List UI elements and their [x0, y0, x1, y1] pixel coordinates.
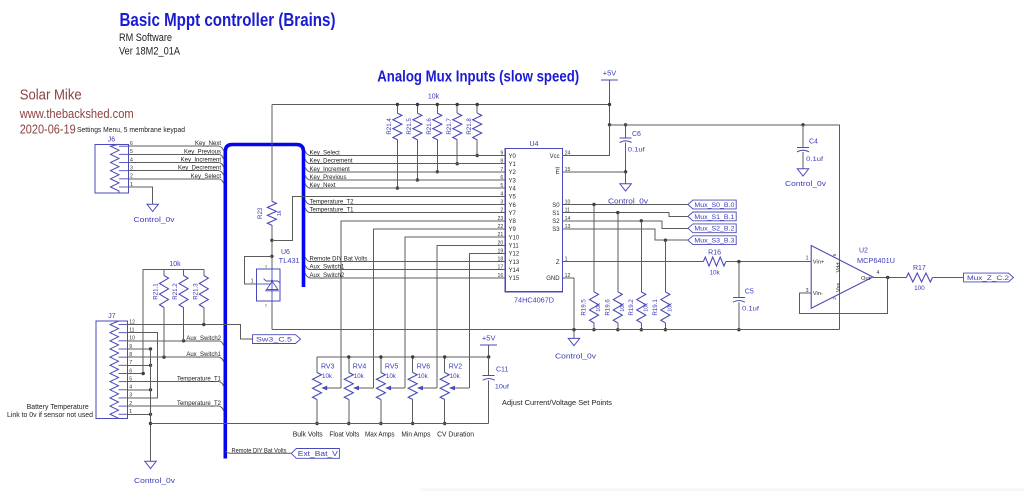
- wire R19.5 leads: [593, 205, 595, 292]
- wire C5 top lead: [738, 262, 740, 298]
- wire mux select S2 to flag: [563, 221, 688, 229]
- svg-text:S1: S1: [552, 211, 560, 217]
- svg-text:Y8: Y8: [509, 219, 517, 225]
- svg-text:R21.8: R21.8: [466, 118, 473, 135]
- node net flag Sw3_C.5: [253, 335, 301, 344]
- regulator U6 TL431: [256, 269, 280, 301]
- wire R19.1 leads: [664, 240, 666, 292]
- wire R21.4 leads: [396, 105, 398, 114]
- wire pot top rail: [317, 356, 489, 358]
- resistor R19.2 10k: [637, 292, 646, 323]
- svg-text:3: 3: [265, 264, 267, 268]
- svg-text:Mux_Z_C.2: Mux_Z_C.2: [967, 275, 1010, 282]
- connector J6 (keypad): [95, 144, 128, 193]
- svg-text:RV5: RV5: [385, 363, 399, 370]
- svg-text:R23: R23: [257, 207, 264, 219]
- svg-text:Ext_Bat_V: Ext_Bat_V: [298, 449, 338, 458]
- svg-text:16: 16: [498, 273, 504, 279]
- svg-text:Analog Mux Inputs (slow speed): Analog Mux Inputs (slow speed): [377, 69, 579, 86]
- svg-text:Control_0v: Control_0v: [134, 478, 176, 485]
- junction R21.5 on +5V rail: [416, 103, 419, 106]
- svg-text:Vdd: Vdd: [836, 263, 842, 273]
- junction R19.5 tap: [592, 203, 595, 206]
- svg-text:E: E: [556, 170, 560, 176]
- svg-text:Temperature_T1: Temperature_T1: [177, 377, 222, 383]
- svg-text:Y0: Y0: [509, 154, 517, 160]
- wire R23 bottom to TL431 cathode: [271, 225, 273, 269]
- svg-text:S3: S3: [552, 227, 560, 233]
- wire +5V rail left end down to R23: [271, 105, 273, 202]
- svg-text:Y6: Y6: [509, 203, 517, 209]
- junction R21.1 bottom on Aux_Switch1: [162, 355, 165, 358]
- wire Key_Decrement (bus to mux Y1): [305, 159, 309, 164]
- svg-text:Y10: Y10: [509, 235, 520, 241]
- node net flag Mux_S0_B.0: [688, 200, 736, 209]
- svg-text:10k: 10k: [386, 373, 397, 380]
- wire RV wiper net to mux Y10: [405, 237, 505, 388]
- svg-text:10uf: 10uf: [495, 384, 509, 391]
- svg-text:7: 7: [500, 167, 503, 173]
- wire Key_Select (bus to mux Y0): [305, 151, 309, 156]
- svg-text:10k: 10k: [644, 303, 650, 312]
- svg-text:Y11: Y11: [509, 244, 520, 250]
- wire C5 bottom to ground rail: [738, 302, 740, 329]
- wire R21.3 leads: [203, 270, 205, 276]
- wire Aux_Switch1 (bus to mux Y14): [305, 265, 309, 270]
- svg-text:Y15: Y15: [509, 276, 520, 282]
- junction R19.5 on ground rail: [592, 328, 595, 331]
- junction pin1 ground: [149, 413, 152, 416]
- power +5V (pots): [480, 344, 497, 346]
- wire Aux_Switch2: J7 pin 10 to bus: [128, 340, 220, 342]
- potentiometer RV6 10k: [408, 373, 417, 400]
- wire RV3 top/bottom leads: [316, 357, 318, 373]
- svg-text:R19.2: R19.2: [628, 299, 635, 316]
- junction R19.1 on ground rail: [664, 328, 667, 331]
- node faint bottom band: [420, 488, 1024, 491]
- svg-text:C6: C6: [632, 131, 641, 138]
- junction R19.2 on ground rail: [640, 328, 643, 331]
- svg-text:1: 1: [806, 256, 809, 262]
- wire Temperature_T2 (bus to mux Y6): [305, 200, 309, 205]
- junction +5V / pull-up rail: [608, 103, 611, 106]
- svg-text:10k: 10k: [354, 373, 365, 380]
- svg-text:Y13: Y13: [509, 260, 520, 266]
- svg-text:RV4: RV4: [353, 363, 367, 370]
- junction RV2 on bottom rail: [443, 422, 446, 425]
- junction RV6 on pot rail: [411, 355, 414, 358]
- wire +5V top rail: [272, 104, 610, 106]
- capacitor C4 0.1uf: [797, 146, 809, 148]
- svg-text:Temperature_T1: Temperature_T1: [310, 208, 355, 214]
- ground Control_0v (J7): [145, 461, 156, 468]
- svg-text:Key_Select: Key_Select: [191, 174, 222, 180]
- wire J7 pin 6 to 10k pull-up rail: [128, 270, 204, 374]
- svg-text:10k: 10k: [450, 373, 461, 380]
- junction R21.7 on +5V rail: [456, 103, 459, 106]
- svg-text:Vin-: Vin-: [813, 291, 823, 297]
- svg-text:10k: 10k: [428, 93, 440, 100]
- mux U4 74HC4067D: [505, 149, 562, 292]
- wire RV6 top/bottom leads: [412, 357, 414, 373]
- svg-text:0.1uf: 0.1uf: [742, 306, 759, 313]
- wire mux Z output to R16: [563, 261, 704, 263]
- svg-text:Key_Increment: Key_Increment: [310, 167, 351, 173]
- svg-text:Vin+: Vin+: [813, 260, 824, 266]
- ground Control_0v (E pin / C6): [620, 184, 631, 191]
- svg-text:J6: J6: [108, 136, 116, 143]
- svg-text:Float Volts: Float Volts: [329, 429, 359, 438]
- wire R21.1 leads: [163, 270, 165, 276]
- svg-text:Bulk Volts: Bulk Volts: [293, 429, 323, 438]
- svg-text:Y1: Y1: [509, 162, 517, 168]
- wire Key_Increment (J6 pin 4 to bus): [128, 162, 219, 164]
- capacitor C5 0.1uf: [733, 297, 745, 299]
- wire bottom rail (pots to J7 ground): [151, 423, 489, 425]
- svg-text:Out: Out: [861, 276, 870, 282]
- junction R21.2 bottom on Aux_Switch2: [182, 339, 185, 342]
- resistor R19.5 10k: [590, 292, 599, 323]
- junction output/feedback: [886, 276, 889, 279]
- junction pin6 supply: [142, 372, 145, 375]
- wire mux select S1 to flag: [563, 213, 688, 217]
- junction TL431 cathode/ref: [270, 255, 273, 258]
- resistor R23 1k: [267, 201, 276, 225]
- junction R21.7 to key row: [456, 162, 459, 165]
- wire Temperature_T1 (bus to mux Y7): [305, 208, 309, 213]
- resistor R21.3 10k: [199, 276, 208, 308]
- wire Key_Select (J6 pin 2 to bus): [128, 178, 219, 180]
- junction RV4 on pot rail: [347, 355, 350, 358]
- svg-text:RV6: RV6: [417, 363, 431, 370]
- wire RV2 wiper arrow: [454, 387, 470, 389]
- ground Control_0v (J6): [147, 204, 158, 211]
- wire R16 to op-amp Vin+: [726, 261, 811, 263]
- svg-text:Control_0v: Control_0v: [134, 217, 176, 224]
- junction Y5 tap: [270, 239, 273, 242]
- svg-text:Aux_Switch1: Aux_Switch1: [310, 265, 345, 271]
- svg-text:R21.3: R21.3: [192, 283, 199, 300]
- svg-text:8: 8: [500, 159, 503, 165]
- svg-text:C4: C4: [809, 139, 818, 146]
- svg-text:Y12: Y12: [509, 252, 520, 258]
- wire RV5 wiper arrow: [390, 387, 405, 389]
- svg-text:Mux_S1_B.1: Mux_S1_B.1: [694, 214, 734, 221]
- svg-text:TL431: TL431: [279, 258, 300, 265]
- svg-text:Key_Next: Key_Next: [195, 141, 221, 147]
- svg-text:74HC4067D: 74HC4067D: [514, 296, 554, 305]
- wire RV4 top/bottom leads: [348, 357, 350, 373]
- junction RV5 on pot rail: [379, 355, 382, 358]
- svg-text:S0: S0: [552, 203, 560, 209]
- svg-text:U6: U6: [281, 249, 290, 256]
- svg-text:Key_Previous: Key_Previous: [310, 175, 347, 181]
- junction R21.4 to key row: [396, 186, 399, 189]
- junction R21.6 on +5V rail: [436, 103, 439, 106]
- svg-text:Key_Select: Key_Select: [310, 151, 341, 157]
- svg-text:R16: R16: [708, 250, 721, 257]
- junction U4 GND on ground rail: [572, 328, 575, 331]
- resistor R21.4 10k: [393, 113, 402, 140]
- svg-text:Key_Decrement: Key_Decrement: [178, 166, 221, 172]
- svg-text:Key_Next: Key_Next: [310, 183, 336, 189]
- junction RV3 on bottom rail: [315, 422, 318, 425]
- svg-text:Z: Z: [556, 260, 560, 266]
- svg-text:10k: 10k: [169, 261, 181, 268]
- junction RV5 on bottom rail: [379, 422, 382, 425]
- svg-text:Sw3_C.5: Sw3_C.5: [256, 337, 293, 344]
- ground Control_0v (C4): [797, 169, 808, 176]
- wire J6 pin 1 to ground: [128, 187, 152, 204]
- svg-text:17: 17: [498, 265, 504, 271]
- resistor R19.6 10k: [613, 292, 622, 323]
- junction RV4 on bottom rail: [347, 422, 350, 425]
- wire +5V branch to C6: [610, 125, 626, 138]
- wire RV wiper net to mux Y9: [373, 229, 505, 388]
- junction pin9 ground: [149, 347, 152, 350]
- wire ground symbol stub: [573, 330, 575, 339]
- wire Remote DIY Bat Volts from bus end to flag: [225, 451, 291, 453]
- svg-text:4: 4: [877, 270, 880, 276]
- resistor R21.5 10k: [413, 113, 422, 140]
- svg-text:23: 23: [498, 216, 504, 222]
- wire mux select S0 to flag: [563, 204, 688, 206]
- wire Key_Previous (bus to mux Y3): [305, 175, 309, 180]
- wire RV wiper net to mux Y12: [469, 253, 505, 388]
- wire R21.5 leads: [416, 105, 418, 114]
- wire C6 bottom to enable/ground: [625, 143, 627, 184]
- svg-text:10k: 10k: [620, 303, 626, 312]
- wire U4 E pin to ground: [563, 171, 626, 173]
- svg-text:100: 100: [914, 285, 925, 292]
- svg-text:RV2: RV2: [449, 363, 463, 370]
- wire RV2 top/bottom leads: [444, 357, 446, 373]
- power +5V (top): [601, 79, 618, 81]
- svg-text:R19.1: R19.1: [652, 299, 659, 316]
- svg-text:S2: S2: [552, 219, 560, 225]
- svg-text:2020-06-19: 2020-06-19: [20, 122, 76, 137]
- wire +5V drop to Vcc: [609, 80, 611, 156]
- svg-text:Control_0v: Control_0v: [785, 181, 827, 188]
- resistor R16 10k: [703, 257, 725, 266]
- svg-text:Y4: Y4: [509, 186, 517, 192]
- svg-text:1k: 1k: [277, 210, 283, 216]
- svg-text:19: 19: [498, 248, 504, 254]
- wire Key_Next (J6 pin 6 to bus): [128, 145, 219, 147]
- wire RV wiper net to mux Y8: [341, 221, 505, 388]
- svg-text:Max Amps: Max Amps: [365, 429, 395, 438]
- wire R17 to Mux_Z flag: [933, 277, 964, 279]
- svg-text:Mux_S0_B.0: Mux_S0_B.0: [694, 202, 734, 209]
- resistor R21.7 10k: [453, 113, 462, 140]
- potentiometer RV4 10k: [344, 373, 353, 400]
- svg-text:Temperature_T2: Temperature_T2: [177, 401, 222, 407]
- svg-text:R21.2: R21.2: [172, 283, 179, 300]
- wire U4 Vcc to +5V: [563, 125, 610, 156]
- svg-text:Y5: Y5: [509, 195, 517, 201]
- svg-text:Key_Decrement: Key_Decrement: [310, 159, 353, 165]
- wire R21.7 leads: [456, 105, 458, 114]
- svg-text:Y2: Y2: [509, 170, 517, 176]
- svg-text:MCP6401U: MCP6401U: [857, 258, 895, 265]
- svg-text:2: 2: [265, 304, 267, 308]
- svg-text:Control_0v: Control_0v: [555, 354, 597, 361]
- svg-text:Solar Mike: Solar Mike: [20, 87, 82, 104]
- capacitor C6 0.1uf: [620, 137, 632, 139]
- svg-text:U2: U2: [859, 248, 868, 255]
- svg-text:10k: 10k: [418, 373, 429, 380]
- svg-text:U4: U4: [530, 141, 539, 148]
- wire RV3 wiper arrow: [326, 387, 341, 389]
- svg-text:Mux_S2_B.2: Mux_S2_B.2: [694, 226, 734, 233]
- resistor R21.1 10k: [160, 276, 169, 308]
- connector J7 (battery temperature / aux): [96, 321, 128, 418]
- svg-text:Ver 18M2_01A: Ver 18M2_01A: [119, 46, 181, 58]
- svg-text:18: 18: [498, 257, 504, 263]
- svg-text:RM Software: RM Software: [119, 32, 172, 44]
- wire R19.6 leads: [617, 213, 619, 292]
- wire op-amp Vss to ground rail: [839, 294, 841, 330]
- potentiometer RV5 10k: [376, 373, 385, 400]
- svg-text:R17: R17: [913, 265, 926, 272]
- svg-text:6: 6: [500, 175, 503, 181]
- svg-text:Link to 0v if sensor not used: Link to 0v if sensor not used: [7, 410, 93, 419]
- resistor R19.1 10k: [661, 292, 670, 323]
- svg-text:Y9: Y9: [509, 227, 517, 233]
- wire Y5 net: TL431 cathode to mux Y5: [272, 196, 505, 240]
- wire TL431 anode to ground rail: [271, 301, 273, 330]
- svg-text:22: 22: [498, 224, 504, 230]
- svg-text:2: 2: [500, 208, 503, 214]
- junction pin7 ground: [149, 364, 152, 367]
- wire J7 pin 11 to pin 3: [128, 333, 158, 398]
- wire J7 pin 9 to ground column: [128, 348, 151, 350]
- wire Aux_Switch1: J7 pin 8 to bus: [128, 356, 220, 358]
- svg-text:Basic Mppt controller (Brains): Basic Mppt controller (Brains): [120, 9, 336, 30]
- svg-text:J7: J7: [108, 313, 116, 320]
- svg-text:Y7: Y7: [509, 211, 517, 217]
- svg-text:R21.6: R21.6: [426, 118, 433, 135]
- node net flag Mux_S1_B.1: [688, 212, 736, 221]
- node net flag Mux_Z_C.2: [964, 273, 1014, 282]
- svg-text:5: 5: [500, 183, 503, 189]
- resistor R17 100: [906, 273, 932, 282]
- wire Key_Increment (bus to mux Y2): [305, 167, 309, 172]
- wire Temperature_T2: J7 pin 2 to bus: [128, 405, 220, 407]
- wire RV6 wiper arrow: [422, 387, 437, 389]
- svg-text:10k: 10k: [709, 269, 720, 276]
- svg-text:Remote DIY Bat Volts: Remote DIY Bat Volts: [232, 449, 287, 455]
- junction RV2 on pot rail: [443, 355, 446, 358]
- node net flag Ext_Bat_V: [291, 449, 339, 459]
- svg-text:Y3: Y3: [509, 178, 517, 184]
- svg-text:Aux_Switch2: Aux_Switch2: [310, 273, 345, 279]
- junction ground column / bottom rail: [149, 422, 152, 425]
- svg-text:Remote DIY Bat Volts: Remote DIY Bat Volts: [310, 257, 368, 263]
- svg-text:R19.5: R19.5: [581, 299, 588, 316]
- wire R21.8 leads: [476, 105, 478, 114]
- svg-text:20: 20: [498, 240, 504, 246]
- wire op-amp output to R17: [873, 277, 906, 279]
- wire J7 pin 1 to ground column: [128, 413, 151, 415]
- wire feedback Vin- loop: [800, 278, 888, 314]
- wire C4 bottom to ground: [802, 152, 804, 169]
- svg-text:RV3: RV3: [321, 363, 335, 370]
- resistor R21.6 10k: [433, 113, 442, 140]
- svg-text:R19.6: R19.6: [605, 299, 612, 316]
- junction R21.3 bottom on Sw3 net: [202, 323, 205, 326]
- wire R21.2 leads: [183, 270, 185, 276]
- op-amp U2 MCP6401U: [811, 246, 873, 309]
- svg-text:R21.5: R21.5: [406, 118, 413, 135]
- svg-text:10k: 10k: [596, 303, 602, 312]
- svg-text:21: 21: [498, 232, 504, 238]
- wire C11 bottom to bottom rail: [488, 380, 490, 423]
- junction C5 top: [737, 260, 740, 263]
- wire J7 ground column down to ground symbol: [150, 349, 152, 461]
- wire RV4 wiper arrow: [358, 387, 374, 389]
- svg-text:Vcc: Vcc: [550, 154, 560, 160]
- svg-text:C5: C5: [745, 288, 754, 295]
- resistor R21.8 10k: [473, 113, 482, 140]
- resistor R21.2 10k: [179, 276, 188, 308]
- svg-text:2: 2: [832, 297, 837, 300]
- svg-text:0.1uf: 0.1uf: [806, 156, 823, 163]
- svg-text:Vss: Vss: [836, 283, 842, 293]
- wire RV wiper net to mux Y11: [437, 245, 505, 388]
- wire R19.2 leads: [640, 221, 642, 292]
- wire +5V to C4 and op-amp Vdd: [610, 125, 840, 294]
- svg-text:Key_Increment: Key_Increment: [181, 158, 222, 164]
- wire J7 pin 7 to ground column: [128, 364, 151, 366]
- wire bus (thick blue keypad/sensor bus): [225, 145, 303, 459]
- wire TL431 ref loop: [245, 256, 272, 284]
- junction R19.6 on ground rail: [616, 328, 619, 331]
- wire 10k pull-up rail (J7 side): [143, 269, 204, 271]
- svg-text:Y14: Y14: [509, 268, 520, 274]
- junction C6 / E wire: [624, 170, 627, 173]
- wire Sw3 net: J7 pin 12 to Sw3_C.5 flag: [128, 325, 253, 340]
- wire C4 top lead: [802, 125, 804, 148]
- svg-text:9: 9: [500, 151, 503, 157]
- junction R21.8 on +5V rail: [476, 103, 479, 106]
- junction R19.1 tap: [664, 239, 667, 242]
- junction R21.4 on +5V rail: [396, 103, 399, 106]
- svg-text:10k: 10k: [322, 373, 333, 380]
- wire C11 top lead: [488, 357, 490, 376]
- wire U4 GND pin to ground rail: [563, 278, 574, 330]
- svg-text:Settings Menu, 5 membrane keyp: Settings Menu, 5 membrane keypad: [77, 125, 185, 134]
- wire J7 pin 4 to ground column: [128, 389, 151, 391]
- svg-text:Key_Previous: Key_Previous: [184, 149, 221, 155]
- wire Key_Decrement (J6 pin 3 to bus): [128, 170, 219, 172]
- junction C4 top: [801, 123, 804, 126]
- junction R21.5 to key row: [416, 178, 419, 181]
- wire Aux_Switch2 (bus to mux Y15): [305, 273, 309, 278]
- junction R21.6 to key row: [436, 170, 439, 173]
- junction C5 on ground rail: [737, 328, 740, 331]
- wire Key_Previous (J6 pin 5 to bus): [128, 153, 219, 155]
- node net flag Mux_S3_B.3: [688, 236, 736, 245]
- capacitor C11 10uf: [483, 375, 495, 377]
- junction R21.8 to key row: [476, 154, 479, 157]
- svg-text:C11: C11: [496, 366, 508, 373]
- svg-text:GND: GND: [546, 276, 560, 282]
- wire mux select S3 to flag: [563, 229, 688, 240]
- svg-text:5: 5: [832, 253, 837, 256]
- svg-text:R21.4: R21.4: [386, 118, 393, 135]
- wire Key_Next (bus to mux Y4): [305, 184, 309, 189]
